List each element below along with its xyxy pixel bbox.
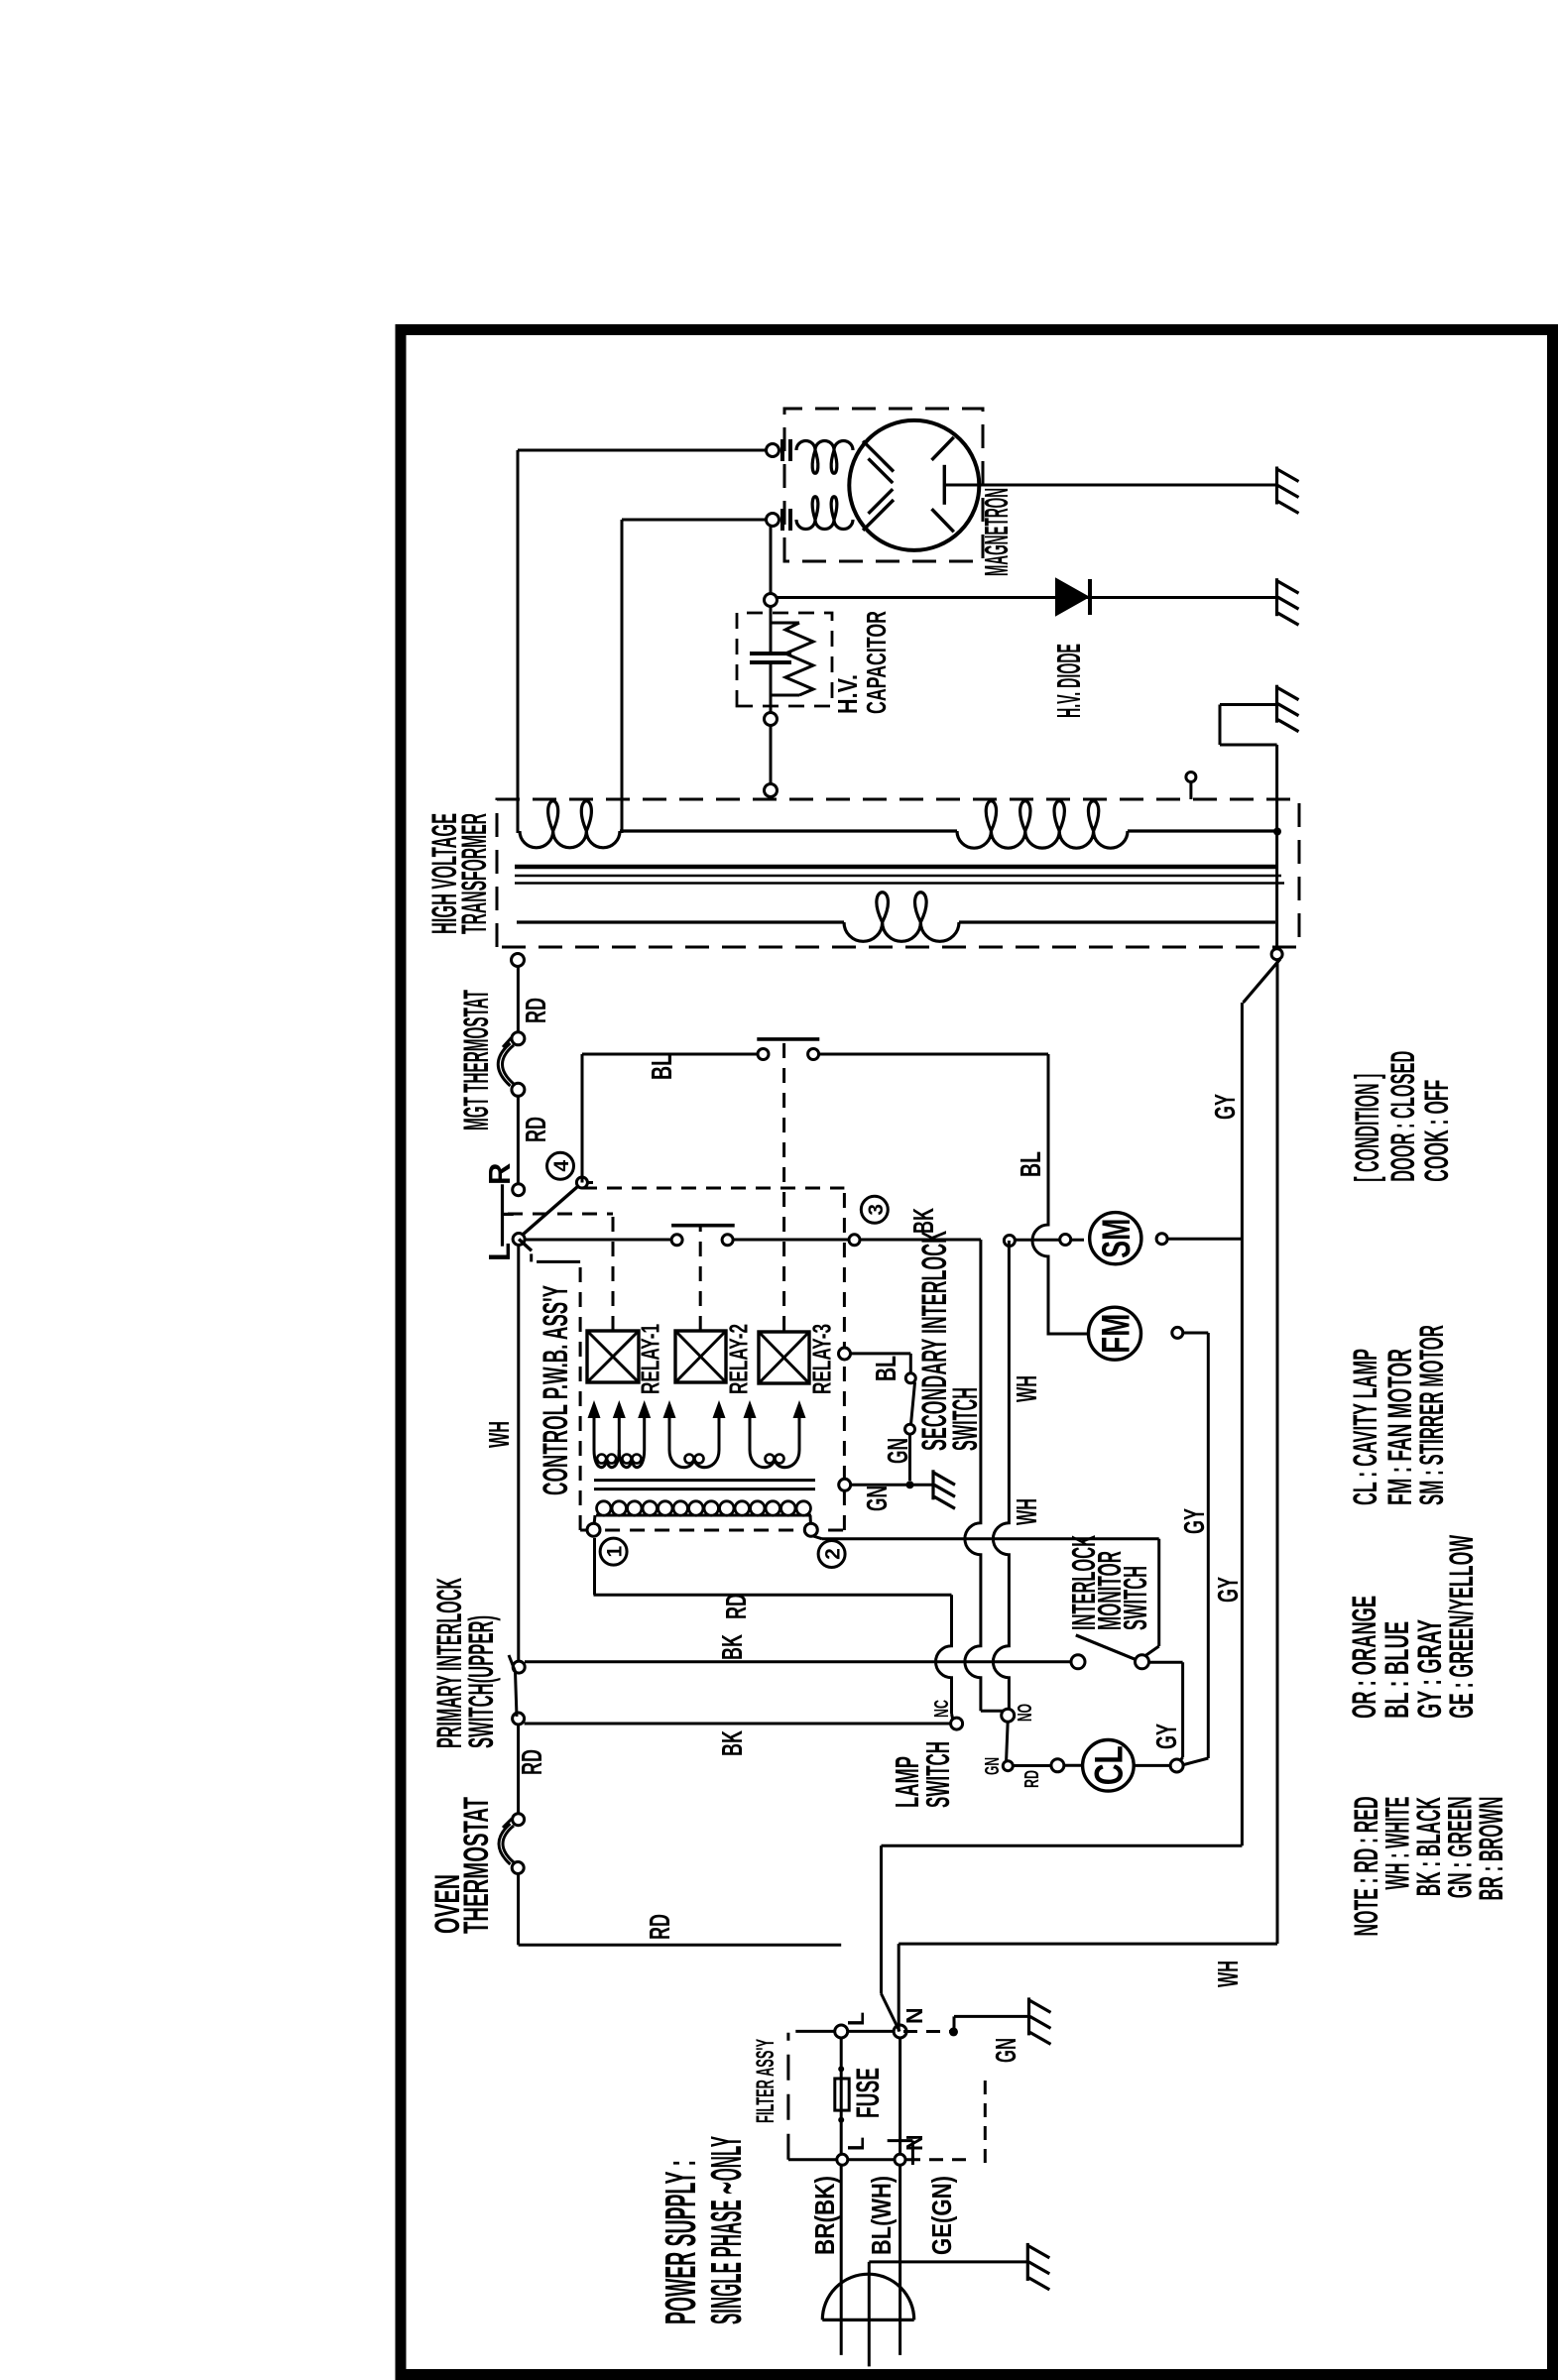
wire SM to GY	[1167, 1238, 1242, 1241]
pushbutton bar RY3	[757, 1037, 819, 1041]
terminal 1	[594, 1515, 596, 1530]
contact R circle	[513, 1184, 525, 1196]
wire GY FM horizontal	[1207, 1333, 1210, 1758]
HV secondary to terminal	[959, 920, 1275, 923]
svg-text:BL: BL	[871, 1356, 902, 1381]
wire chassis line Y=1288	[1276, 960, 1279, 1944]
svg-text:FUSE: FUSE	[850, 2068, 886, 2118]
oven thermostat TH2	[513, 1814, 525, 1826]
contact a	[905, 1373, 915, 1383]
circled 3	[861, 1196, 888, 1223]
terminal	[765, 713, 778, 726]
svg-text:RELAY-1: RELAY-1	[636, 1324, 665, 1394]
terminal HV secondary	[1271, 949, 1282, 960]
terminal filament 2	[767, 514, 779, 527]
wire L-N link row2	[788, 2158, 906, 2161]
terminal	[765, 594, 778, 607]
svg-text:BR : BROWN: BR : BROWN	[1473, 1797, 1510, 1901]
wire RD thermostat to interlock	[517, 1725, 520, 1814]
wire filament lead 2	[621, 520, 624, 833]
magnetron cathode bar	[943, 465, 946, 505]
capacitor C1 plates	[750, 660, 791, 664]
PWB dashed box	[582, 1187, 844, 1190]
contact b	[905, 1424, 915, 1434]
ground secondary interlock	[910, 1484, 933, 1487]
svg-text:GE(GN): GE(GN)	[926, 2176, 957, 2255]
primary winding lead	[620, 829, 957, 832]
node 4 terminal	[576, 1177, 587, 1188]
svg-text:FM: FM	[1094, 1314, 1138, 1354]
wire jog to ground	[1220, 744, 1277, 747]
filament choke 2	[796, 497, 853, 530]
wire FM to GY corner	[1183, 1332, 1208, 1335]
svg-text:L: L	[482, 1243, 517, 1261]
svg-text:L: L	[843, 2012, 869, 2026]
core lines	[515, 865, 1277, 870]
svg-text:R: R	[482, 1163, 517, 1185]
svg-text:BK: BK	[908, 1208, 940, 1234]
wire to ground junction	[908, 1434, 911, 1481]
wire GN stub	[953, 2016, 956, 2031]
svg-text:SWITCH: SWITCH	[1117, 1566, 1153, 1630]
terminal	[765, 784, 778, 797]
magnetron anode X	[863, 441, 894, 472]
ground diode	[1275, 578, 1278, 616]
terminal NC	[951, 1718, 963, 1729]
svg-text:BR(BK): BR(BK)	[809, 2176, 840, 2255]
relay R3 box	[759, 1332, 809, 1383]
svg-text:GY: GY	[1151, 1724, 1183, 1749]
filter assy bracket left	[786, 2033, 789, 2160]
ground GN earth	[1027, 1997, 1030, 2035]
svg-text:RD: RD	[521, 998, 552, 1023]
svg-text:CAPACITOR: CAPACITOR	[861, 611, 892, 714]
HV secondary winding	[844, 892, 959, 942]
svg-text:SWITCH: SWITCH	[919, 1741, 956, 1808]
svg-text:WH: WH	[484, 1421, 516, 1448]
wire GN dash row2 tail	[906, 2158, 972, 2161]
magnetron dashed box	[784, 409, 983, 561]
wire N pin	[899, 2032, 901, 2355]
wire L-N link row1	[795, 2030, 899, 2033]
wire RD to L terminal	[519, 1944, 842, 1947]
svg-text:MAGNETRON: MAGNETRON	[978, 488, 1015, 576]
capacitor dashed box	[737, 613, 832, 706]
svg-text:BL: BL	[1016, 1151, 1047, 1177]
svg-text:1: 1	[604, 1545, 627, 1557]
svg-text:RD: RD	[645, 1914, 676, 1940]
terminal stub on transformer box	[1189, 782, 1192, 799]
svg-text:DOOR : CLOSED: DOOR : CLOSED	[1384, 1051, 1422, 1182]
wire RD thermostat to transformer	[517, 966, 520, 1032]
svg-text:3: 3	[865, 1204, 888, 1216]
contact RY2 a	[671, 1235, 682, 1246]
blade relay4	[523, 1187, 578, 1236]
contact RY3 a	[758, 1049, 769, 1060]
wire RD horizontal with hop	[936, 1595, 952, 1714]
svg-text:WH: WH	[1213, 1961, 1245, 1987]
terminal PWB edge upper	[839, 1348, 851, 1360]
svg-text:GN: GN	[862, 1486, 894, 1511]
svg-text:[ CONDITION ]: [ CONDITION ]	[1349, 1074, 1386, 1182]
svg-text:H.V. DIODE: H.V. DIODE	[1050, 644, 1087, 718]
blade monitor	[1076, 1635, 1139, 1661]
filament winding	[520, 801, 620, 848]
HV secondary lead	[517, 920, 844, 923]
contact RY3 b	[808, 1049, 819, 1060]
motor SM	[1090, 1213, 1141, 1264]
svg-text:POWER SUPPLY :: POWER SUPPLY :	[657, 2160, 705, 2324]
svg-text:CL : CAVITY LAMP: CL : CAVITY LAMP	[1347, 1349, 1384, 1505]
contact monitor right	[1136, 1655, 1149, 1669]
svg-text:RD: RD	[517, 1749, 548, 1775]
svg-text:GY: GY	[1213, 1577, 1245, 1603]
svg-text:N: N	[901, 2134, 927, 2151]
wire WH horizontal	[993, 1241, 1009, 1709]
svg-text:NO: NO	[1015, 1704, 1036, 1722]
wire to SM	[1015, 1239, 1084, 1242]
wire filament-capacitor rail	[770, 662, 773, 798]
primary interlock switch S1	[513, 1713, 525, 1725]
wire BL horizontal to FM	[1032, 1054, 1088, 1334]
svg-text:GN: GN	[883, 1438, 914, 1464]
contact RY2 b	[722, 1235, 733, 1246]
ground transformer	[1275, 685, 1278, 723]
svg-text:SM : STIRRER MOTOR: SM : STIRRER MOTOR	[1413, 1325, 1451, 1505]
wire L pin	[840, 2032, 843, 2355]
wire GN dash from N	[903, 2030, 951, 2033]
blade lamp switch	[1006, 1722, 1008, 1766]
circled 1	[600, 1538, 627, 1565]
svg-text:SWITCH: SWITCH	[946, 1387, 985, 1451]
blade S1	[509, 1655, 517, 1717]
svg-text:2: 2	[822, 1548, 845, 1560]
svg-text:BL: BL	[647, 1054, 678, 1080]
svg-text:GN: GN	[991, 2038, 1022, 2063]
svg-text:RD: RD	[1021, 1770, 1043, 1788]
svg-text:RELAY-2: RELAY-2	[724, 1324, 754, 1394]
terminal CL left	[1051, 1759, 1064, 1772]
terminal WH/SM junction	[1004, 1236, 1015, 1247]
wire BL riser from node4	[581, 1054, 584, 1183]
terminal SM left	[1060, 1235, 1071, 1246]
fuse F1	[835, 2079, 849, 2110]
svg-text:BK: BK	[717, 1730, 749, 1756]
svg-text:RELAY-3: RELAY-3	[807, 1324, 837, 1394]
wire dashed node4 to box	[587, 1181, 593, 1184]
svg-text:4: 4	[550, 1160, 573, 1172]
node GN junction	[949, 2027, 958, 2036]
svg-text:RD: RD	[521, 1117, 552, 1142]
svg-text:GN: GN	[982, 1757, 1004, 1775]
blade to GY	[1244, 959, 1281, 1003]
pwb transformer primary coil	[596, 1514, 811, 1517]
wire BK lamp lower	[525, 1723, 950, 1725]
wire bus to BK bend	[860, 1239, 981, 1242]
magnetron cathode chevrons	[869, 458, 894, 483]
svg-text:THERMOSTAT: THERMOSTAT	[457, 1797, 496, 1934]
terminal PWB edge lower	[839, 1479, 851, 1490]
svg-text:SINGLE PHASE ∼ONLY: SINGLE PHASE ∼ONLY	[702, 2136, 751, 2324]
wire WH bottom long	[899, 1943, 1277, 1946]
terminal 2	[809, 1515, 813, 1530]
svg-text:WH: WH	[1012, 1375, 1043, 1402]
svg-text:GE : GREEN/YELLOW: GE : GREEN/YELLOW	[1443, 1534, 1481, 1718]
ground magnetron	[1275, 467, 1278, 505]
blade secondary interlock	[910, 1382, 914, 1427]
svg-text:BK: BK	[717, 1634, 749, 1660]
terminal filament 1	[767, 444, 779, 457]
terminal N row1	[894, 2025, 906, 2038]
junction lamp common	[1003, 1761, 1013, 1771]
border frame	[401, 330, 1553, 2375]
svg-text:GY: GY	[1179, 1508, 1211, 1534]
svg-text:TRANSFORMER: TRANSFORMER	[455, 813, 494, 934]
wire filament lead 1	[517, 450, 520, 833]
svg-text:L: L	[843, 2137, 869, 2151]
terminal SM right	[1156, 1234, 1167, 1245]
MGT thermostat TH1	[512, 1083, 525, 1096]
svg-text:CL: CL	[1088, 1745, 1132, 1785]
lamp CL	[1083, 1740, 1135, 1792]
wire junction to CL	[1013, 1764, 1051, 1767]
terminal L row2	[837, 2154, 848, 2165]
pwb winding arrows group1	[593, 1412, 596, 1450]
pwb winding arrows group3	[749, 1412, 752, 1450]
svg-text:H.V.: H.V.	[832, 674, 863, 714]
svg-text:NC: NC	[931, 1700, 953, 1718]
wire BL lower	[819, 1053, 1048, 1056]
terminal FM right	[1172, 1327, 1183, 1338]
terminal NO	[1002, 1709, 1015, 1722]
wire junction to PWB	[850, 1484, 910, 1487]
junction dot	[906, 1481, 914, 1488]
diode D1	[1056, 579, 1088, 615]
svg-text:GY: GY	[1210, 1094, 1242, 1120]
terminal bus	[849, 1235, 860, 1246]
power plug P1	[822, 2274, 913, 2320]
wire dashed relay1 link	[508, 1213, 613, 1216]
feedthrough bars 1	[780, 439, 784, 461]
wire GY SM down left side	[882, 1844, 1243, 1847]
pwb transformer core	[594, 1487, 815, 1490]
svg-text:BL(WH): BL(WH)	[866, 2176, 897, 2255]
magnetron V1 circle	[849, 420, 979, 550]
filament choke 1	[796, 441, 853, 474]
wire BK monitor vertical	[525, 1660, 1072, 1663]
wire monitor to CL	[1147, 1661, 1183, 1664]
relay R1 box	[587, 1331, 639, 1382]
feedthrough bars 2	[780, 509, 784, 531]
wire magnetron output	[944, 484, 1276, 487]
wire from terminal2	[813, 1536, 822, 1539]
svg-text:SWITCH(UPPER): SWITCH(UPPER)	[462, 1615, 501, 1748]
pushbutton bar RY2	[671, 1224, 735, 1228]
wire bus contact to BK corner	[733, 1239, 849, 1242]
wire dashed relay2 link	[699, 1226, 702, 1331]
relay R2 box	[675, 1331, 726, 1382]
motor FM	[1089, 1307, 1141, 1360]
svg-text:RD: RD	[721, 1594, 753, 1619]
wire RD contact to thermostat	[517, 1096, 520, 1184]
wire bus common to contact	[525, 1239, 671, 1242]
wire to monitor right contact	[1157, 1539, 1160, 1646]
wire RD from pwb	[594, 1594, 952, 1597]
transformer dashed box	[497, 799, 1299, 947]
svg-text:MGT THERMOSTAT: MGT THERMOSTAT	[457, 990, 496, 1130]
contact common circle	[513, 1234, 525, 1246]
filter assy bracket right	[911, 2141, 914, 2165]
wire GY FM to CL diagonal	[1180, 1758, 1208, 1766]
terminal N row2	[895, 2154, 905, 2165]
circled 2	[818, 1541, 845, 1568]
resistor R1 zigzag	[771, 622, 799, 625]
circled 4	[547, 1152, 574, 1179]
ground GE earth	[1026, 2243, 1029, 2281]
svg-text:CONTROL P.W.B. ASS'Y: CONTROL P.W.B. ASS'Y	[537, 1285, 575, 1495]
svg-text:FILTER ASS'Y: FILTER ASS'Y	[752, 2039, 779, 2123]
wire WH bus upper	[517, 1243, 520, 1661]
svg-text:SM: SM	[1095, 1219, 1139, 1258]
wire diagonal to N	[882, 1993, 900, 2031]
svg-text:COOK : OFF: COOK : OFF	[1418, 1080, 1456, 1182]
terminal L row1	[835, 2025, 848, 2038]
wire dashed relay3 link	[782, 1039, 785, 1331]
contact monitor left	[1071, 1655, 1085, 1669]
wire BK horizontal	[965, 1240, 981, 1711]
wire to switch	[850, 1352, 910, 1355]
contact bracket	[501, 1184, 504, 1246]
svg-text:WH: WH	[1012, 1498, 1043, 1525]
wire diode branch	[777, 596, 1276, 599]
wire GE riser	[869, 2260, 1027, 2263]
wire GY SM horizontal	[1241, 1003, 1244, 1845]
terminal CL right	[1170, 1759, 1183, 1772]
svg-text:N: N	[901, 2007, 927, 2024]
wire GE pin	[868, 2262, 871, 2367]
primary winding (4 loops)	[957, 801, 1128, 848]
terminal at transformer box	[512, 954, 525, 967]
wire winding to chassis line	[1128, 829, 1277, 832]
wire BL vertical	[582, 1053, 758, 1056]
pwb winding arrows group2	[668, 1412, 671, 1450]
